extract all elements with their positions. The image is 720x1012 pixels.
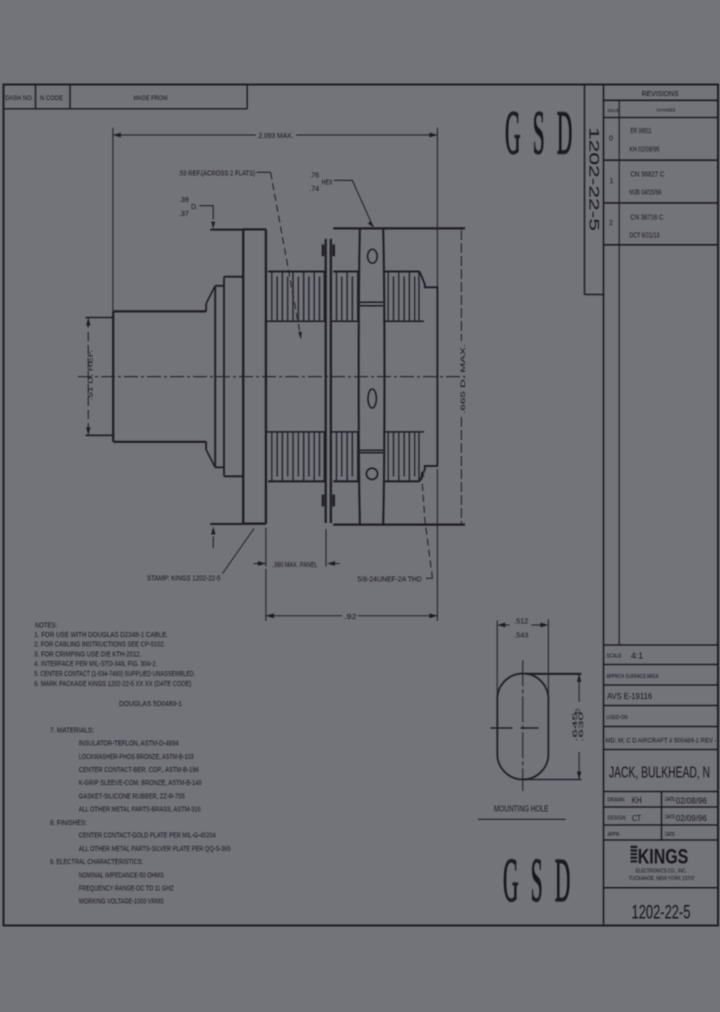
svg-text:.665 D. MAX.: .665 D. MAX. (460, 344, 467, 414)
svg-text:CN 38716 C: CN 38716 C (630, 214, 663, 221)
label STAMP: KINGS 1202-22-5 (147, 527, 254, 583)
svg-text:ER 36811: ER 36811 (630, 128, 651, 135)
dim line .512/.543 (498, 624, 547, 626)
svg-text:HEX: HEX (322, 179, 333, 186)
thread root lines lower (266, 431, 424, 433)
thread hatch block 2 upper (337, 272, 358, 321)
svg-text:ISSUE: ISSUE (608, 108, 620, 113)
right end profile (420, 272, 438, 482)
svg-text:MJB 04/15/96: MJB 04/15/96 (629, 190, 661, 197)
svg-text:CHANGES: CHANGES (657, 108, 676, 114)
svg-text:K-GRIP SLEEVE-COM. BRONZE, AST: K-GRIP SLEEVE-COM. BRONZE, ASTM-B-140 (79, 778, 202, 787)
svg-text:.37: .37 (179, 211, 189, 218)
svg-text:DOUGLAS 5D0489-1: DOUGLAS 5D0489-1 (119, 699, 182, 708)
GSD watermark top (505, 98, 585, 168)
svg-text:APPROX SURFACE AREA: APPROX SURFACE AREA (607, 674, 660, 680)
thread hatch block 2 lower (337, 433, 358, 481)
dimension 2.093 MAX (113, 128, 438, 311)
top-left header table (4, 85, 248, 109)
label .53 REF.(ACROSS 2 FLATS) (178, 169, 302, 339)
svg-text:SCALE: SCALE (607, 654, 623, 660)
svg-text:USED ON: USED ON (607, 715, 628, 721)
svg-text:KINGS: KINGS (638, 846, 689, 869)
thread hatch block 3 upper (388, 272, 419, 321)
svg-text:GASKET-SILICONE RUBBER, ZZ-R-7: GASKET-SILICONE RUBBER, ZZ-R-755 (79, 791, 185, 800)
svg-text:.630: .630 (578, 711, 585, 742)
collar A (k-grip sleeve) (215, 286, 224, 468)
svg-text:JACK, BULKHEAD, N: JACK, BULKHEAD, N (609, 765, 710, 782)
svg-text:DASH NO.: DASH NO. (5, 95, 33, 102)
nut slot hole lower (round) (366, 468, 377, 479)
extension lines .645/.630 (526, 673, 582, 675)
svg-text:4. INTERFACE PER MIL-STD-348,: 4. INTERFACE PER MIL-STD-348, FIG. 304-2… (34, 659, 157, 668)
svg-text:AVS E-19116: AVS E-19116 (607, 691, 652, 701)
vertical part number column (585, 85, 604, 295)
svg-text:2.093 MAX.: 2.093 MAX. (259, 131, 294, 140)
svg-text:5/8-24UNEF-2A THD: 5/8-24UNEF-2A THD (358, 576, 422, 583)
svg-text:DATE: DATE (665, 832, 676, 838)
svg-text:MOUNTING HOLE: MOUNTING HOLE (494, 804, 549, 814)
svg-text:.76: .76 (309, 173, 319, 180)
mounting hole obround (497, 674, 548, 780)
svg-text:D: D (575, 709, 582, 714)
svg-text:7. MATERIALS:: 7. MATERIALS: (50, 725, 94, 734)
svg-text:.92: .92 (344, 612, 357, 621)
thread hatch block 1 upper (272, 272, 324, 321)
svg-text:KH 02/08/96: KH 02/08/96 (629, 147, 659, 154)
svg-text:GSD: GSD (505, 98, 585, 168)
collar B (224, 277, 243, 477)
svg-text:N CODE: N CODE (40, 95, 63, 102)
leader .39/.37 D. (179, 197, 215, 229)
dimension .92 (266, 469, 438, 621)
svg-text:.74: .74 (309, 186, 319, 193)
svg-text:.53 REF.(ACROSS 2 FLATS): .53 REF.(ACROSS 2 FLATS) (178, 169, 255, 178)
dimension .665 D. MAX. (right) (460, 230, 467, 524)
svg-text:DCT 6/21/13: DCT 6/21/13 (629, 233, 659, 240)
svg-text:02/08/96: 02/08/96 (676, 796, 708, 805)
svg-text:2. FOR CABLING INSTRUCTIONS SE: 2. FOR CABLING INSTRUCTIONS SEE CP-5102. (34, 640, 165, 649)
svg-text:1: 1 (610, 178, 614, 185)
panel (bulkhead wall) (323, 239, 334, 523)
thread root lines upper (266, 320, 424, 322)
dim line .645/.630 D (578, 674, 580, 780)
thread hatch block 3 lower (388, 433, 419, 481)
svg-text:MD: M; C D AIRCRAFT # 500489: MD: M; C D AIRCRAFT # 500489-1 REV - (606, 738, 717, 745)
svg-text:KH: KH (632, 796, 642, 805)
svg-text:3. FOR CRIMPING USE DIE KTH-20: 3. FOR CRIMPING USE DIE KTH-2012. (34, 649, 141, 658)
svg-text:CT: CT (632, 814, 641, 823)
svg-text:D.: D. (191, 204, 198, 211)
hex nut body (359, 228, 385, 524)
svg-text:.380 MAX. PANEL: .380 MAX. PANEL (273, 562, 318, 569)
svg-text:INSULATOR-TEFLON, ASTM-D-4894: INSULATOR-TEFLON, ASTM-D-4894 (79, 739, 179, 748)
svg-text:MADE FROM: MADE FROM (134, 95, 168, 102)
thread hatch block 1 lower (272, 433, 324, 481)
svg-text:ELECTRONICS CO., INC.: ELECTRONICS CO., INC. (636, 869, 687, 875)
label 5/8-24UNEF-2A THD (358, 471, 433, 584)
svg-text:CENTER CONTACT-BER. COP., ASTM: CENTER CONTACT-BER. COP., ASTM-B-196 (79, 765, 199, 774)
svg-text:.51 D. REF.: .51 D. REF. (88, 349, 95, 400)
svg-text:02/09/96: 02/09/96 (676, 814, 708, 823)
centerline (78, 376, 465, 378)
svg-text:APPR.: APPR. (608, 832, 621, 838)
svg-text:9. ELECTRAL CHARACTERISTICS:: 9. ELECTRAL CHARACTERISTICS: (50, 857, 143, 866)
svg-text:LOCKWASHER-PHOS BRONZE, ASTM-B: LOCKWASHER-PHOS BRONZE, ASTM-B-103 (79, 752, 194, 761)
extension lines .512/.543 (497, 619, 548, 757)
svg-text:0: 0 (609, 136, 613, 143)
svg-text:.543: .543 (514, 630, 528, 639)
svg-text:CN 36827 C: CN 36827 C (630, 172, 664, 179)
barrel (cable entry) (113, 304, 206, 450)
chamfer cone to collar (206, 286, 215, 468)
svg-text:6. MARK PACKAGE KINGS 1202-22: 6. MARK PACKAGE KINGS 1202-22-5 XX XX (D… (34, 679, 191, 688)
label .76/.74 HEX (309, 173, 373, 228)
svg-text:CENTER CONTACT-GOLD PLATE PER: CENTER CONTACT-GOLD PLATE PER MIL-G-4520… (79, 831, 216, 840)
svg-text:.512: .512 (514, 617, 528, 626)
flange top extension line (.39/.37 ref) (210, 229, 243, 231)
hex nut top extension line to .665 dim (333, 227, 465, 229)
dimension .51 D. REF. (left) (86, 318, 113, 436)
svg-text:TUCKAHOE, NEW YORK 10707: TUCKAHOE, NEW YORK 10707 (629, 876, 695, 882)
nut slot hole upper (oval) (368, 249, 378, 263)
dimension .380 MAX. PANEL (254, 528, 340, 569)
svg-text:STAMP: KINGS 1202-22-5: STAMP: KINGS 1202-22-5 (147, 575, 221, 582)
svg-text:REVISIONS: REVISIONS (642, 89, 679, 98)
svg-text:1202-22-5: 1202-22-5 (587, 127, 603, 231)
svg-text:ALL OTHER METAL PARTS-SILVER P: ALL OTHER METAL PARTS-SILVER PLATE PER Q… (79, 844, 231, 853)
svg-text:1202-22-5: 1202-22-5 (632, 901, 691, 923)
svg-text:FREQUENCY RANGE-DC TO 11 GHZ: FREQUENCY RANGE-DC TO 11 GHZ (79, 884, 174, 893)
svg-text:ALL OTHER METAL PARTS-BRASS, A: ALL OTHER METAL PARTS-BRASS, ASTM-316 (79, 805, 201, 814)
svg-text:DESIGN: DESIGN (608, 816, 626, 822)
svg-text:WORKING VOLTAGE-1000 VRMS: WORKING VOLTAGE-1000 VRMS (79, 897, 164, 906)
svg-text:4:1: 4:1 (631, 652, 644, 661)
svg-text:5. CENTER CONTACT (1-534-7460): 5. CENTER CONTACT (1-534-7460) SUPPLIED … (34, 669, 195, 678)
kings logo (629, 846, 695, 883)
nut slot hole middle (slot) (368, 389, 376, 408)
svg-text:NOMINAL IMPEDANCE-50 OHMS: NOMINAL IMPEDANCE-50 OHMS (79, 870, 164, 879)
svg-text:8. FINISHES:: 8. FINISHES: (50, 818, 87, 827)
horizontal centerline (491, 727, 554, 729)
svg-text:DATE: DATE (665, 815, 676, 821)
svg-text:DRAWN: DRAWN (608, 798, 625, 804)
thread crest lines upper (268, 271, 420, 273)
svg-text:DATE: DATE (665, 797, 676, 803)
svg-text:2: 2 (609, 220, 613, 227)
svg-text:NOTES:: NOTES: (35, 623, 57, 630)
hex nut bottom extension line to .665 dim (333, 523, 465, 525)
svg-text:1. FOR USE WITH DOUGLAS D2348-: 1. FOR USE WITH DOUGLAS D2348-1 CABLE. (34, 630, 168, 639)
svg-text:GSD: GSD (503, 846, 583, 916)
GSD watermark bottom (503, 846, 583, 916)
svg-text:.39: .39 (179, 197, 189, 204)
flange bottom extension line (210, 523, 243, 525)
revisions table (604, 85, 719, 926)
vertical centerline (522, 660, 524, 791)
thread crest lines lower (268, 480, 420, 482)
flange body (243, 229, 266, 523)
